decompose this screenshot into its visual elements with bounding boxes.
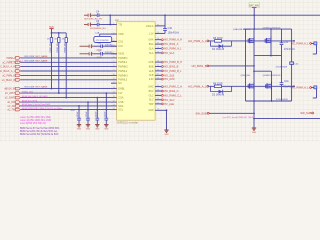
svg-text:Last NTC found PWM 40C TRUST: Last NTC found PWM 40C TRUST xyxy=(223,116,256,119)
svg-text:15: 15 xyxy=(113,96,115,98)
svg-text:C31: C31 xyxy=(71,110,76,112)
svg-text:HO_SLB: HO_SLB xyxy=(164,73,174,77)
svg-text:100nF: 100nF xyxy=(86,111,88,118)
svg-text:VDD: VDD xyxy=(118,33,123,36)
svg-text:GHA: GHA xyxy=(148,39,154,42)
svg-text:TSI: TSI xyxy=(118,23,122,26)
svg-text:SDF10R5_BU_HV: SDF10R5_BU_HV xyxy=(84,19,103,21)
svg-text:PWM_EN: PWM_EN xyxy=(65,42,67,52)
svg-text:29: 29 xyxy=(157,32,159,34)
svg-text:HV_ALE: HV_ALE xyxy=(164,102,174,106)
svg-text:CIN: CIN xyxy=(118,45,123,48)
svg-text:ENBL: ENBL xyxy=(118,88,125,91)
svg-text:HO_BIAS_B: HO_BIAS_B xyxy=(164,65,178,69)
svg-text:GND: GND xyxy=(86,129,91,131)
svg-text:12: 12 xyxy=(113,82,115,84)
svg-text:PWMH3: PWMH3 xyxy=(118,74,128,77)
svg-text:GND: GND xyxy=(77,129,82,131)
svg-text:SW10R/5W_BU: SW10R/5W_BU xyxy=(90,28,106,30)
svg-text:PWMH2: PWMH2 xyxy=(118,66,128,69)
svg-text:NET_NAME: NET_NAME xyxy=(36,55,48,58)
svg-text:HO_BIAS_A: HO_BIAS_A xyxy=(164,42,178,46)
svg-text:HO_SLC: HO_SLC xyxy=(164,98,174,102)
svg-text:BSB: BSB xyxy=(149,65,154,68)
svg-text:BAT_48V: BAT_48V xyxy=(249,5,259,8)
svg-text:Loss 3p/5W 15% 30k 1%: Loss 3p/5W 15% 30k 1% xyxy=(20,123,46,125)
svg-text:6: 6 xyxy=(113,56,114,58)
svg-text:NET_NAME: NET_NAME xyxy=(36,86,48,89)
svg-text:uC_SAVE: uC_SAVE xyxy=(5,97,16,100)
svg-text:uC_DM: uC_DM xyxy=(7,102,15,104)
svg-text:BMW Servo 5V Set 5s PwrnOHM 50: BMW Servo 5V Set 5s PwrnOHM 50% xyxy=(20,127,59,130)
svg-text:CSB: CSB xyxy=(118,101,123,104)
svg-text:PWM_EN: PWM_EN xyxy=(50,42,52,52)
svg-text:HO_PWM_A_L: HO_PWM_A_L xyxy=(188,84,207,88)
svg-text:BLNK Set 4 POS: BLNK Set 4 POS xyxy=(22,99,38,102)
svg-text:SLB: SLB xyxy=(149,74,154,77)
svg-text:PWM1_RST: PWM1_RST xyxy=(22,91,34,93)
svg-text:C2F: C2F xyxy=(284,42,289,44)
svg-text:R24 100R: R24 100R xyxy=(25,87,35,89)
svg-text:100nF: 100nF xyxy=(96,111,98,118)
svg-text:10R/0R0: 10R/0R0 xyxy=(105,52,114,54)
svg-text:BLNK Sync 5 Set 5s PwrnOHM: BLNK Sync 5 Set 5s PwrnOHM xyxy=(22,103,50,106)
svg-text:10R/0R0: 10R/0R0 xyxy=(105,44,114,46)
svg-text:C2G: C2G xyxy=(284,81,289,83)
svg-text:R8 220R: R8 220R xyxy=(213,83,223,86)
svg-text:R18 220R: R18 220R xyxy=(25,60,35,62)
svg-text:R18 220R: R18 220R xyxy=(25,56,35,58)
svg-text:NC: NC xyxy=(118,82,122,85)
svg-text:470nF/1kV: 470nF/1kV xyxy=(284,49,296,51)
svg-text:BLNK PWM FREQ 1MHz 2.2k 4.7k s: BLNK PWM FREQ 1MHz 2.2k 4.7k set Wdog xyxy=(22,107,62,110)
svg-text:Q4/BSC070N10LS: Q4/BSC070N10LS xyxy=(263,28,282,30)
svg-text:11: 11 xyxy=(113,78,115,80)
svg-text:HO_PWM_A_L: HO_PWM_A_L xyxy=(164,47,182,51)
svg-text:HO_SLA: HO_SLA xyxy=(164,51,174,55)
svg-text:C1A: C1A xyxy=(95,31,100,34)
svg-text:HO_PWM_B_H: HO_PWM_B_H xyxy=(164,60,182,64)
svg-text:GLB: GLB xyxy=(149,70,154,73)
svg-text:100nF: 100nF xyxy=(77,111,79,118)
svg-text:BMW Servo5% 3W 4k 0k/a 5O% set: BMW Servo5% 3W 4k 0k/a 5O% set xyxy=(20,130,58,133)
svg-text:13: 13 xyxy=(113,87,115,89)
svg-text:GND: GND xyxy=(252,132,257,134)
svg-text:ILIM: ILIM xyxy=(149,78,154,81)
svg-text:Q6/BSC070N10LS: Q6/BSC070N10LS xyxy=(263,75,282,77)
svg-text:BMW ServoOW 3W (W/1k/5k 3a 50%: BMW ServoOW 3W (W/1k/5k 3a 50% xyxy=(20,133,58,136)
svg-text:uC_PWM_B: uC_PWM_B xyxy=(2,75,15,77)
svg-text:uC_xRST: uC_xRST xyxy=(5,93,16,95)
svg-text:17: 17 xyxy=(113,104,115,106)
svg-text:Lorem 1p/3W 100R 30m 150k: Lorem 1p/3W 100R 30m 150k xyxy=(20,116,51,119)
svg-text:1.1V: 1.1V xyxy=(149,32,154,35)
svg-text:PWML2: PWML2 xyxy=(118,70,128,73)
svg-text:SDA: SDA xyxy=(118,105,123,108)
svg-text:23: 23 xyxy=(157,65,159,67)
svg-text:HO_PWM_A_L: HO_PWM_A_L xyxy=(291,42,309,46)
svg-text:14: 14 xyxy=(157,109,159,111)
svg-text:PWML1: PWML1 xyxy=(118,61,128,64)
svg-text:100nF: 100nF xyxy=(105,111,107,118)
svg-text:GND: GND xyxy=(164,134,169,136)
svg-text:22: 22 xyxy=(157,69,159,71)
svg-text:D2 1N4148: D2 1N4148 xyxy=(212,94,225,97)
svg-text:GHB: GHB xyxy=(148,61,154,64)
svg-text:HO_PWM_A_L: HO_PWM_A_L xyxy=(291,86,309,90)
svg-text:D2 1N4148: D2 1N4148 xyxy=(212,48,225,51)
svg-text:Lorem tip NET: Lorem tip NET xyxy=(9,60,24,63)
svg-text:472/1206/5W: 472/1206/5W xyxy=(96,40,110,42)
svg-text:16: 16 xyxy=(113,101,115,103)
svg-text:20: 20 xyxy=(157,78,159,80)
svg-text:SW_SUB: SW_SUB xyxy=(300,111,311,115)
svg-text:14: 14 xyxy=(113,92,115,94)
svg-text:PWMH1: PWMH1 xyxy=(118,57,128,60)
svg-text:uBULK_M: uBULK_M xyxy=(4,89,15,91)
svg-text:Lorem 2p/3W 100R 30m 1%W: Lorem 2p/3W 100R 30m 1%W xyxy=(20,119,52,122)
svg-text:HO_PWM_A_H: HO_PWM_A_H xyxy=(164,38,182,42)
svg-text:uC_BULK_A_H: uC_BULK_A_H xyxy=(0,66,15,69)
svg-text:FLT: FLT xyxy=(118,92,123,95)
svg-text:HO_BIAS_C: HO_BIAS_C xyxy=(164,89,178,93)
svg-text:VINS: VINS xyxy=(118,53,124,56)
svg-text:9: 9 xyxy=(113,69,114,71)
svg-text:SLC: SLC xyxy=(149,99,154,102)
svg-text:CS1: CS1 xyxy=(118,40,123,43)
svg-text:24: 24 xyxy=(157,61,159,63)
svg-text:SW_SUB: SW_SUB xyxy=(195,111,207,115)
svg-text:CSA: CSA xyxy=(118,97,123,100)
svg-text:8: 8 xyxy=(113,65,114,67)
svg-text:Q5B/Q5A: Q5B/Q5A xyxy=(241,74,251,77)
svg-text:Q3A/Q3B BSC070: Q3A/Q3B BSC070 xyxy=(233,28,252,31)
svg-text:25: 25 xyxy=(157,51,159,53)
svg-text:C10: C10 xyxy=(168,27,173,30)
svg-text:HO_BIAS_B: HO_BIAS_B xyxy=(192,64,207,68)
svg-text:uC_TM: uC_TM xyxy=(7,110,15,112)
svg-text:BLNK 400 OHM 3. SET/AUX: BLNK 400 OHM 3. SET/AUX xyxy=(22,95,48,98)
svg-text:18: 18 xyxy=(157,89,159,91)
svg-text:PWM1A: PWM1A xyxy=(6,57,15,60)
svg-text:HO_PWM_B_L: HO_PWM_B_L xyxy=(164,69,182,73)
svg-text:PWM_EN: PWM_EN xyxy=(57,42,59,52)
svg-text:NET_NAME: NET_NAME xyxy=(36,59,48,62)
svg-text:R8 220R: R8 220R xyxy=(213,37,223,40)
svg-text:uC_BULK_B: uC_BULK_B xyxy=(2,80,16,82)
svg-text:GND: GND xyxy=(148,109,154,112)
svg-text:47050/0508: 47050/0508 xyxy=(276,99,288,101)
svg-text:100nF/1kV: 100nF/1kV xyxy=(168,32,180,35)
svg-text:18: 18 xyxy=(113,108,115,110)
svg-text:GHC: GHC xyxy=(148,86,154,89)
svg-text:28: 28 xyxy=(157,38,159,40)
svg-text:26: 26 xyxy=(157,47,159,49)
svg-text:GND: GND xyxy=(95,129,100,131)
svg-text:uC_AD: uC_AD xyxy=(7,105,15,108)
svg-text:HO_PWM_A_L: HO_PWM_A_L xyxy=(188,39,207,43)
svg-text:uC_BULK_A_L: uC_BULK_A_L xyxy=(0,70,16,73)
svg-text:7: 7 xyxy=(113,61,114,63)
svg-text:GLC: GLC xyxy=(149,94,154,97)
svg-text:1: 1 xyxy=(113,23,114,25)
svg-text:HO_PWM_C_H: HO_PWM_C_H xyxy=(164,85,182,89)
svg-text:100mA: 100mA xyxy=(146,25,154,28)
svg-text:TMP: TMP xyxy=(148,103,153,106)
svg-text:21: 21 xyxy=(157,74,159,76)
svg-text:GND: GND xyxy=(104,129,109,131)
svg-text:16: 16 xyxy=(157,98,159,100)
svg-text:GLA: GLA xyxy=(149,47,154,50)
svg-text:SCL: SCL xyxy=(118,109,123,112)
svg-text:10: 10 xyxy=(113,74,115,76)
svg-text:SLA: SLA xyxy=(149,52,154,55)
svg-text:HO_PWM_C_L: HO_PWM_C_L xyxy=(164,93,182,97)
svg-text:BSA: BSA xyxy=(149,43,154,46)
svg-text:U2: U2 xyxy=(115,18,119,22)
svg-text:27: 27 xyxy=(157,43,159,45)
svg-text:17: 17 xyxy=(157,94,159,96)
svg-text:XDPD2221 or similar: XDPD2221 or similar xyxy=(117,121,139,124)
svg-text:HO_ILIM: HO_ILIM xyxy=(164,77,174,81)
svg-text:BSC: BSC xyxy=(149,90,154,93)
svg-text:19: 19 xyxy=(157,85,159,87)
svg-text:15: 15 xyxy=(157,102,159,104)
svg-text:30: 30 xyxy=(157,24,159,26)
